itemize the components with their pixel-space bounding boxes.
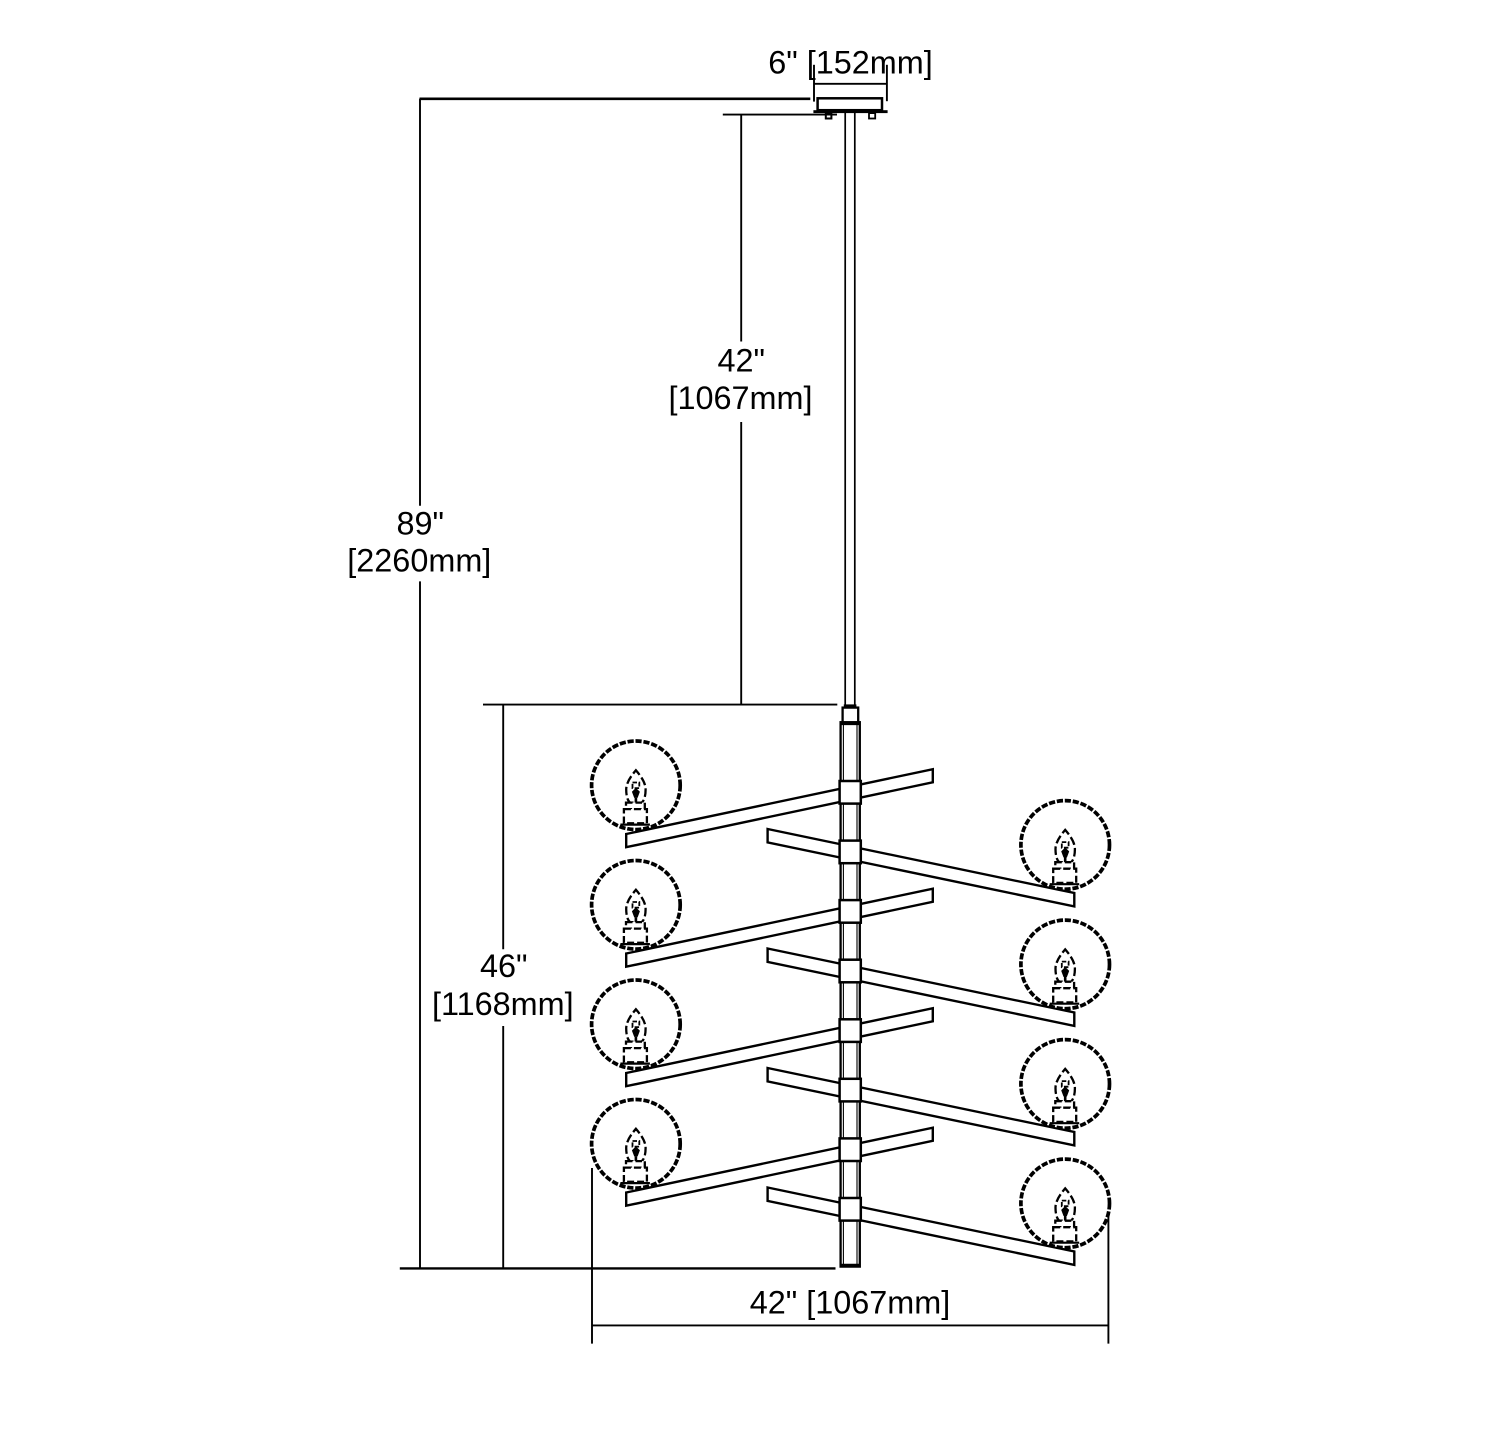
svg-text:[2260mm]: [2260mm] (347, 543, 491, 579)
svg-text:42" [1067mm]: 42" [1067mm] (750, 1285, 951, 1321)
svg-text:[1067mm]: [1067mm] (668, 380, 812, 416)
svg-text:6" [152mm]: 6" [152mm] (768, 45, 933, 81)
svg-text:89": 89" (397, 505, 445, 541)
svg-text:42": 42" (718, 343, 766, 379)
svg-text:46": 46" (480, 948, 528, 984)
svg-text:[1168mm]: [1168mm] (432, 986, 574, 1022)
